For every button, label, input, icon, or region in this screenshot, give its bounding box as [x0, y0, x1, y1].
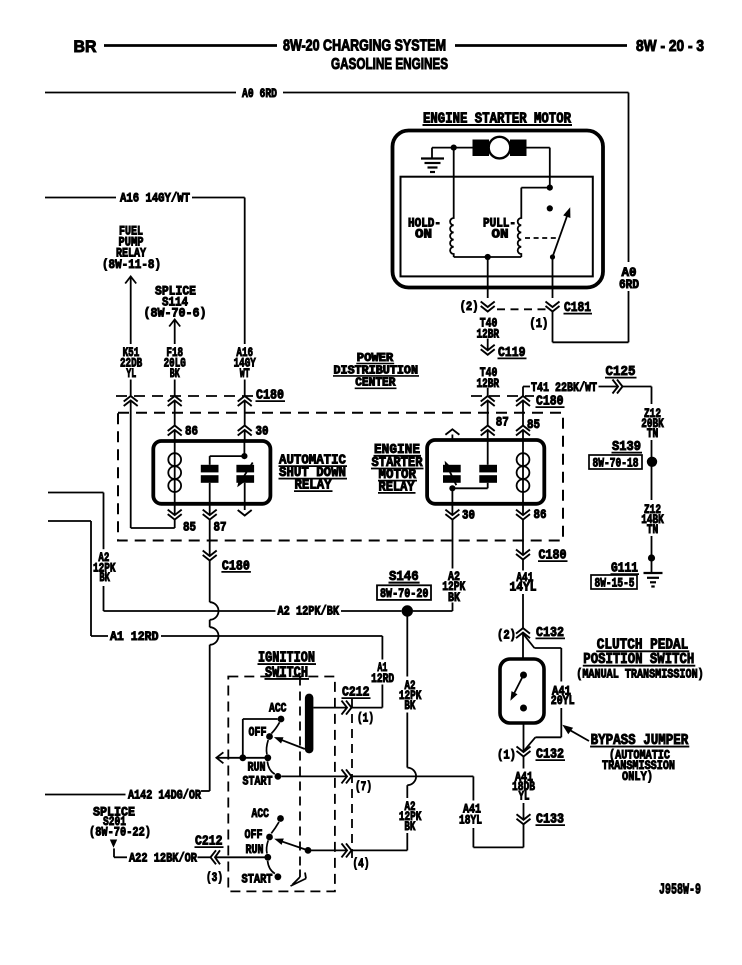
svg-text:(1): (1)	[529, 316, 548, 331]
svg-text:TN: TN	[647, 522, 659, 537]
svg-text:(8W-11-8): (8W-11-8)	[102, 257, 161, 272]
svg-text:(8W-70-6): (8W-70-6)	[144, 306, 207, 321]
svg-text:(MANUAL TRANSMISSION): (MANUAL TRANSMISSION)	[576, 667, 703, 682]
svg-text:86: 86	[534, 507, 547, 522]
svg-text:ON: ON	[492, 227, 509, 242]
svg-text:T41 22BK/WT: T41 22BK/WT	[531, 380, 597, 395]
svg-text:86: 86	[185, 424, 198, 439]
svg-text:(3): (3)	[206, 870, 223, 885]
svg-text:8W-70-18: 8W-70-18	[593, 456, 639, 471]
svg-text:(2): (2)	[497, 628, 516, 643]
svg-text:BR: BR	[74, 38, 97, 56]
svg-text:14YL: 14YL	[510, 580, 537, 595]
svg-text:ON: ON	[415, 227, 432, 242]
svg-text:START: START	[242, 872, 273, 887]
svg-text:A1 12RD: A1 12RD	[110, 629, 159, 644]
svg-text:A16 14GY/WT: A16 14GY/WT	[120, 191, 190, 206]
svg-text:A2 12PK/BK: A2 12PK/BK	[278, 604, 340, 619]
svg-text:ONLY): ONLY)	[622, 769, 653, 784]
svg-text:(7): (7)	[355, 779, 372, 794]
svg-text:20YL: 20YL	[551, 693, 575, 708]
svg-text:8W-15-5: 8W-15-5	[595, 576, 635, 591]
svg-text:START: START	[243, 774, 273, 789]
svg-text:30: 30	[462, 508, 475, 523]
svg-text:OFF: OFF	[249, 725, 267, 740]
svg-text:YL: YL	[519, 789, 530, 804]
svg-text:6RD: 6RD	[619, 277, 639, 292]
svg-text:A0 6RD: A0 6RD	[242, 86, 277, 101]
svg-text:12RD: 12RD	[371, 671, 394, 686]
svg-text:ACC: ACC	[252, 806, 270, 821]
svg-text:A142 14DG/OR: A142 14DG/OR	[128, 788, 201, 803]
svg-text:A22 12BK/OR: A22 12BK/OR	[129, 851, 197, 866]
svg-text:BK: BK	[99, 570, 110, 585]
svg-text:GASOLINE ENGINES: GASOLINE ENGINES	[331, 56, 448, 73]
svg-text:BK: BK	[404, 698, 415, 713]
svg-text:8W-70-20: 8W-70-20	[380, 586, 429, 601]
svg-text:85: 85	[183, 520, 196, 535]
svg-text:BK: BK	[448, 590, 460, 605]
svg-text:85: 85	[527, 417, 540, 432]
svg-text:(2): (2)	[460, 299, 479, 314]
svg-text:(8W-70-22): (8W-70-22)	[89, 825, 151, 840]
svg-text:87: 87	[214, 520, 227, 535]
svg-text:ACC: ACC	[269, 701, 287, 716]
svg-text:WT: WT	[240, 366, 250, 381]
svg-text:30: 30	[256, 424, 269, 439]
svg-text:(1): (1)	[357, 711, 374, 726]
svg-text:18YL: 18YL	[459, 813, 482, 828]
svg-text:YL: YL	[126, 366, 136, 381]
svg-text:OFF: OFF	[245, 827, 263, 842]
svg-text:(4): (4)	[353, 856, 370, 871]
svg-text:RUN: RUN	[248, 760, 266, 775]
svg-text:87: 87	[496, 415, 509, 430]
svg-text:BK: BK	[404, 819, 415, 834]
svg-text:RUN: RUN	[246, 842, 264, 857]
svg-text:(1): (1)	[497, 748, 516, 763]
svg-text:J958W-9: J958W-9	[659, 882, 701, 899]
svg-text:8W-20 CHARGING SYSTEM: 8W-20 CHARGING SYSTEM	[283, 38, 446, 55]
svg-text:BK: BK	[170, 366, 180, 381]
svg-text:TN: TN	[647, 426, 659, 441]
svg-text:8W - 20 - 3: 8W - 20 - 3	[636, 38, 704, 55]
